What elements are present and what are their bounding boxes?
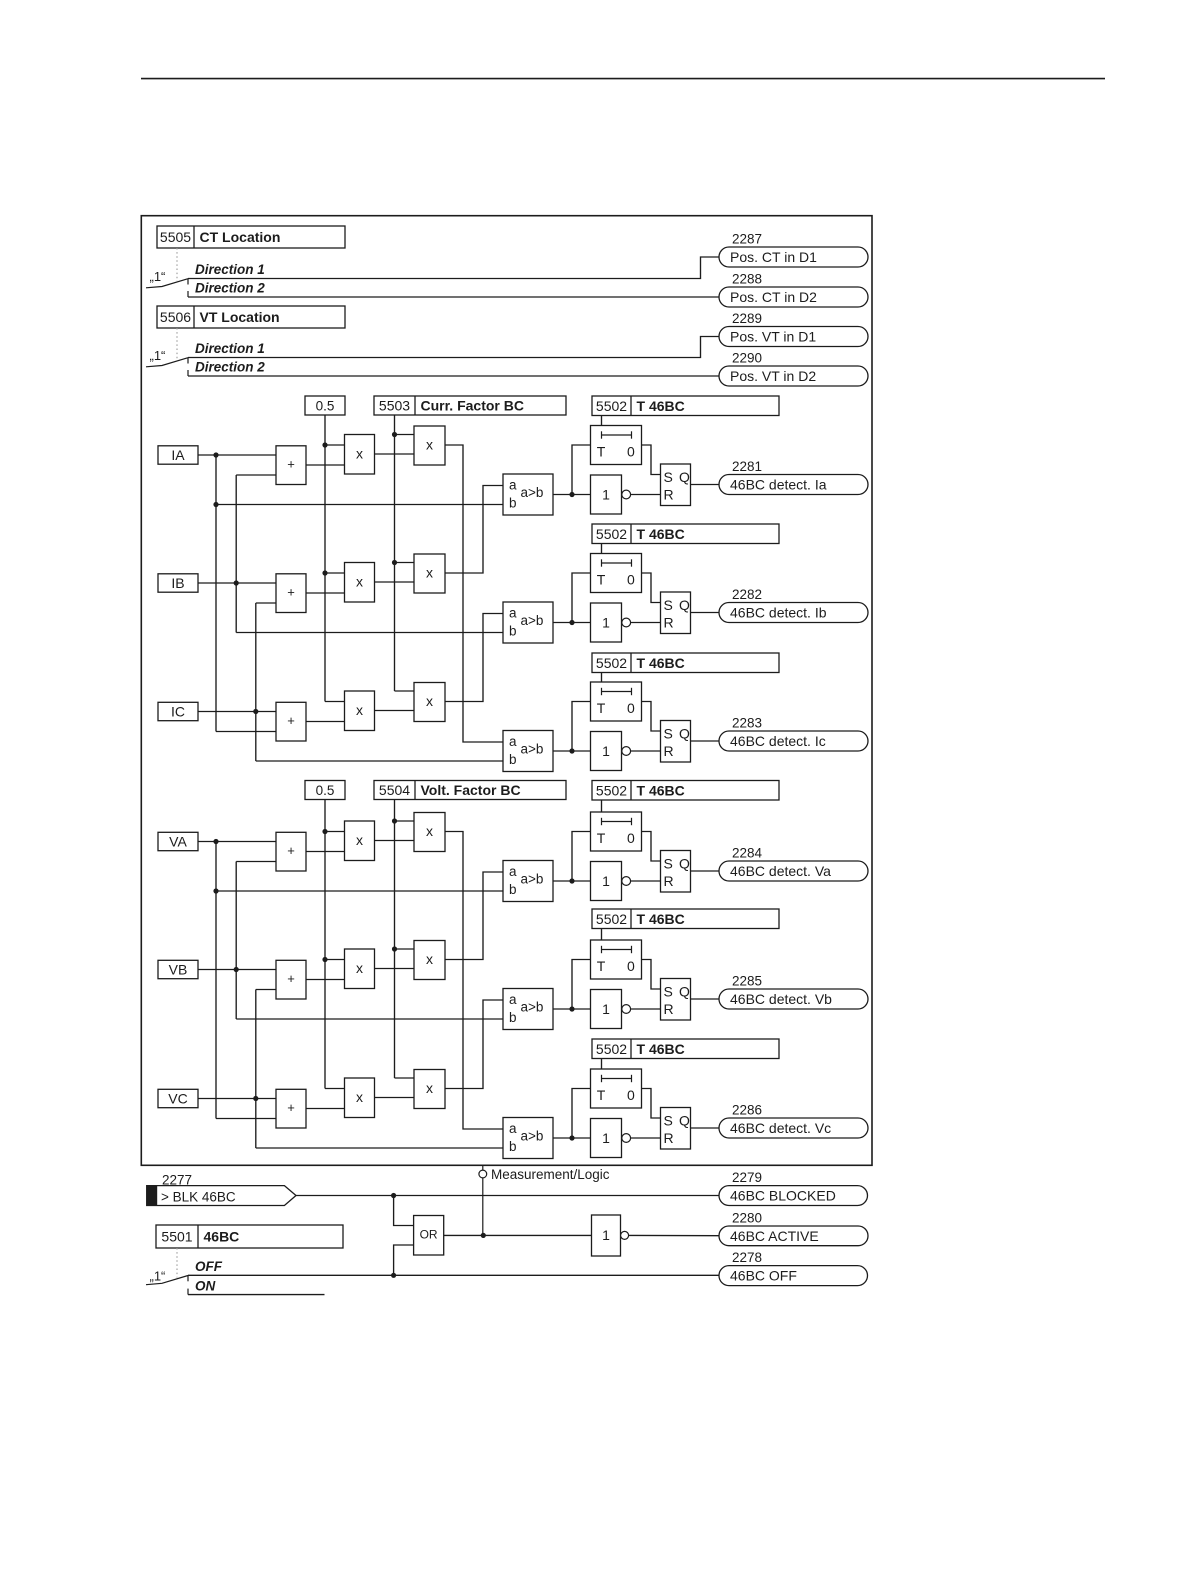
net OFF label — [195, 1259, 223, 1274]
svg-text:46BC detect. Vb: 46BC detect. Vb — [730, 991, 832, 1007]
wire multiplier x1 VC output — [375, 1097, 415, 1099]
wire summator VC output — [306, 1108, 345, 1110]
inverter gate 1 VA — [591, 862, 631, 901]
svg-text:46BC: 46BC — [204, 1229, 240, 1245]
output indication 2288 Pos. CT in D2 — [719, 272, 868, 308]
svg-text:2281: 2281 — [732, 459, 762, 474]
svg-text:2288: 2288 — [732, 272, 762, 287]
multiplier x2 IC — [414, 683, 445, 722]
SR flip-flop IA — [661, 464, 691, 506]
svg-text:T 46BC: T 46BC — [637, 782, 685, 798]
switch arm 5506 — [146, 358, 188, 367]
svg-text:46BC detect. Vc: 46BC detect. Vc — [730, 1120, 831, 1136]
svg-text:S: S — [664, 1113, 673, 1129]
parameter box 5501 46BC — [156, 1225, 343, 1248]
parameter box 5506 VT Location — [157, 306, 345, 328]
net Direction 1 (VT) label — [195, 341, 265, 356]
parameter box 5505 CT Location — [157, 226, 345, 248]
multiplier x1 VB — [345, 949, 375, 989]
measurement/logic boundary marker — [479, 1165, 610, 1235]
wire inverter IB to R input — [631, 622, 661, 624]
switch position label 1 for 5506 — [150, 348, 166, 363]
wire 0.5 constant feed (5503 group) — [322, 415, 344, 702]
svg-text:R: R — [664, 743, 674, 759]
svg-text:a>b: a>b — [521, 871, 544, 886]
svg-text:5505: 5505 — [160, 229, 191, 245]
svg-text:5502: 5502 — [596, 398, 627, 414]
timer T 46BC IA — [591, 426, 642, 465]
inverter gate 1 VB — [591, 990, 631, 1029]
wire inverter VB to R input — [631, 1008, 661, 1010]
svg-text:Direction 2: Direction 2 — [195, 360, 265, 375]
svg-text:a>b: a>b — [521, 741, 544, 756]
svg-text:T 46BC: T 46BC — [637, 398, 685, 414]
comparator a>b IB — [503, 602, 553, 643]
svg-text:2284: 2284 — [732, 846, 763, 861]
wire comparator VA output — [553, 832, 591, 884]
svg-text:IC: IC — [171, 703, 185, 719]
svg-text:46BC detect. Va: 46BC detect. Va — [730, 863, 831, 879]
svg-text:Q: Q — [679, 469, 690, 485]
wire inverter VA to R input — [631, 880, 661, 882]
summator (+) IC — [276, 702, 306, 741]
svg-text:a>b: a>b — [521, 613, 544, 628]
svg-text:„1“: „1“ — [150, 348, 166, 363]
svg-text:x: x — [426, 436, 433, 452]
input quantity box VC — [158, 1089, 198, 1107]
wire comparator IC output — [553, 702, 591, 754]
wire Direction 2 (CT) rail — [188, 291, 719, 297]
wire a-feed VB to comparator VA — [445, 872, 503, 960]
svg-text:R: R — [664, 873, 674, 889]
svg-text:1: 1 — [602, 1227, 610, 1243]
input quantity box IB — [158, 574, 198, 592]
svg-text:Pos. VT in D2: Pos. VT in D2 — [730, 368, 816, 384]
svg-text:0: 0 — [627, 1087, 635, 1103]
svg-text:Curr. Factor BC: Curr. Factor BC — [421, 398, 524, 414]
OR gate — [414, 1216, 444, 1256]
svg-text:+: + — [287, 843, 295, 858]
wire inverter VC to R input — [631, 1137, 661, 1139]
svg-text:b: b — [509, 496, 517, 511]
wire 5502 to timer IB — [601, 544, 603, 554]
output indication 2281 46BC detect. Ia — [719, 459, 868, 495]
wire phase-1 distribution (IA) — [213, 452, 503, 731]
wire multiplier x1 VB output — [375, 968, 415, 970]
wire comparator IB output — [553, 573, 591, 625]
svg-text:46BC BLOCKED: 46BC BLOCKED — [730, 1188, 836, 1204]
svg-text:1: 1 — [602, 486, 610, 502]
wire Q output IA — [691, 484, 720, 486]
wire multiplier x1 IB output — [375, 581, 415, 583]
svg-text:2286: 2286 — [732, 1103, 762, 1118]
svg-text:0: 0 — [627, 958, 635, 974]
input quantity box VB — [158, 960, 198, 978]
svg-text:5502: 5502 — [596, 526, 627, 542]
svg-text:5502: 5502 — [596, 782, 627, 798]
svg-text:x: x — [356, 702, 363, 718]
svg-text:OR: OR — [420, 1228, 438, 1242]
wire IB to summator — [198, 582, 276, 584]
output indication 2283 46BC detect. Ic — [719, 716, 868, 752]
output indication 2278 46BC OFF — [719, 1250, 868, 1286]
svg-text:T 46BC: T 46BC — [637, 655, 685, 671]
svg-text:+: + — [287, 456, 295, 471]
inverter gate 1 VC — [591, 1119, 631, 1158]
wire 5502 to timer VC — [601, 1059, 603, 1070]
svg-text:Measurement/Logic: Measurement/Logic — [491, 1167, 610, 1182]
timer T 46BC VB — [591, 940, 642, 979]
svg-text:1: 1 — [602, 1001, 610, 1017]
output indication 2287 Pos. CT in D1 — [719, 232, 868, 268]
svg-text:Q: Q — [679, 726, 690, 742]
wire a-feed IA to comparator IC — [445, 445, 503, 742]
svg-text:2283: 2283 — [732, 716, 762, 731]
wire summator VB output — [306, 979, 345, 981]
svg-text:Direction 2: Direction 2 — [195, 281, 265, 296]
svg-text:T: T — [597, 444, 606, 460]
wire phase-3 distribution (VC) — [253, 990, 503, 1149]
svg-text:x: x — [426, 564, 433, 580]
svg-text:S: S — [664, 984, 673, 1000]
multiplier x2 VA — [414, 813, 445, 852]
svg-text:x: x — [356, 960, 363, 976]
svg-text:IA: IA — [171, 447, 185, 463]
wire comparator IA output — [553, 445, 591, 497]
wire factor 5504 feed — [392, 800, 414, 1079]
svg-text:Q: Q — [679, 1113, 690, 1129]
wire OFF rail — [188, 1273, 719, 1282]
svg-text:VT Location: VT Location — [200, 309, 280, 325]
inverter gate 1 IB — [591, 603, 631, 642]
svg-text:T 46BC: T 46BC — [637, 911, 685, 927]
wire Direction 1 (CT) rail — [188, 257, 719, 285]
parameter box 5503 Curr. Factor BC — [374, 396, 566, 415]
wire inverter to active output — [629, 1234, 719, 1236]
multiplier x1 IC — [345, 691, 375, 731]
wire timer IA output to S input — [642, 445, 661, 475]
parameter box 5502 T 46BC — [592, 781, 779, 801]
multiplier x2 VB — [414, 941, 445, 980]
svg-text:T: T — [597, 830, 606, 846]
svg-text:Q: Q — [679, 597, 690, 613]
page header rule — [141, 78, 1105, 80]
svg-text:2287: 2287 — [732, 232, 762, 247]
svg-text:1: 1 — [602, 743, 610, 759]
binary input 2277 >BLK 46BC flag — [147, 1172, 296, 1205]
constant 0.5 box (5504 group) — [305, 781, 345, 800]
multiplier x1 VA — [345, 821, 375, 861]
svg-text:R: R — [664, 614, 674, 630]
comparator a>b VC — [503, 1118, 553, 1159]
multiplier x2 IA — [414, 426, 445, 465]
wire a-feed IC to comparator IB — [445, 614, 503, 702]
wire factor 5503 feed — [392, 415, 414, 691]
svg-text:+: + — [287, 713, 295, 728]
svg-text:Pos. VT in D1: Pos. VT in D1 — [730, 329, 816, 345]
svg-text:„1“: „1“ — [150, 1269, 166, 1284]
constant 0.5 box (5503 group) — [305, 396, 345, 415]
switch arm 5501 — [146, 1276, 188, 1285]
parameter box 5502 T 46BC — [592, 909, 779, 929]
wire OFF to OR gate input 2 — [394, 1245, 414, 1275]
svg-text:x: x — [426, 693, 433, 709]
svg-text:b: b — [509, 1139, 517, 1154]
wire Q output VA — [691, 870, 720, 872]
timer T 46BC IB — [591, 554, 642, 593]
svg-text:x: x — [426, 1080, 433, 1096]
wire phase-1 distribution (VA) — [213, 839, 503, 1119]
wire Q output VB — [691, 998, 720, 1000]
wire multiplier x1 IC output — [375, 710, 415, 712]
svg-text:46BC ACTIVE: 46BC ACTIVE — [730, 1228, 819, 1244]
svg-text:T 46BC: T 46BC — [637, 1041, 685, 1057]
svg-text:0: 0 — [627, 572, 635, 588]
parameter box 5502 T 46BC — [592, 653, 779, 673]
svg-text:a: a — [509, 606, 517, 621]
comparator a>b VB — [503, 989, 553, 1030]
wire 5502 to timer VA — [601, 800, 603, 812]
wire a-feed VA to comparator VC — [445, 832, 503, 1130]
svg-text:a: a — [509, 992, 517, 1007]
wire OR output to inverter — [444, 1233, 592, 1238]
svg-text:ON: ON — [195, 1278, 216, 1293]
svg-text:x: x — [426, 823, 433, 839]
svg-text:46BC detect. Ic: 46BC detect. Ic — [730, 733, 826, 749]
svg-text:a: a — [509, 1121, 517, 1136]
svg-text:CT Location: CT Location — [200, 229, 281, 245]
summator (+) VA — [276, 832, 306, 871]
svg-text:5501: 5501 — [161, 1229, 192, 1245]
SR flip-flop IC — [661, 721, 691, 763]
svg-text:+: + — [287, 584, 295, 599]
wire IC to summator — [198, 711, 276, 713]
svg-text:1: 1 — [602, 614, 610, 630]
wire Q output IB — [691, 612, 720, 614]
svg-text:T 46BC: T 46BC — [637, 526, 685, 542]
net ON label — [195, 1278, 216, 1293]
svg-text:b: b — [509, 882, 517, 897]
SR flip-flop VC — [661, 1108, 691, 1150]
multiplier x1 IA — [345, 435, 375, 475]
svg-text:Pos. CT in D1: Pos. CT in D1 — [730, 249, 817, 265]
svg-text:x: x — [356, 446, 363, 462]
switch position label 1 for 5501 — [150, 1269, 166, 1284]
svg-text:0.5: 0.5 — [316, 783, 335, 798]
SR flip-flop VA — [661, 851, 691, 893]
svg-text:a: a — [509, 734, 517, 749]
wire summator IC output — [306, 721, 345, 723]
svg-text:b: b — [509, 1010, 517, 1025]
svg-text:46BC detect. Ia: 46BC detect. Ia — [730, 477, 827, 493]
svg-text:S: S — [664, 726, 673, 742]
output indication 2285 46BC detect. Vb — [719, 974, 868, 1010]
wire comparator VC output — [553, 1089, 591, 1141]
wire BLK 46BC to blocked output — [296, 1193, 719, 1198]
setting dashed link 5505 — [176, 248, 178, 281]
output indication 2286 46BC detect. Vc — [719, 1103, 868, 1139]
svg-text:0: 0 — [627, 700, 635, 716]
svg-text:R: R — [664, 1001, 674, 1017]
svg-text:x: x — [356, 1089, 363, 1105]
wire phase-2 distribution (VB) — [234, 862, 503, 1020]
svg-text:2285: 2285 — [732, 974, 762, 989]
svg-text:T: T — [597, 700, 606, 716]
inverter gate 1 IC — [591, 732, 631, 771]
svg-text:46BC OFF: 46BC OFF — [730, 1268, 797, 1284]
SR flip-flop VB — [661, 979, 691, 1021]
wire 5502 to timer IA — [601, 416, 603, 426]
svg-text:Pos. CT in D2: Pos. CT in D2 — [730, 289, 817, 305]
svg-text:5506: 5506 — [160, 309, 191, 325]
wire inverter IA to R input — [631, 494, 661, 496]
wire summator IB output — [306, 592, 345, 594]
svg-text:+: + — [287, 971, 295, 986]
output indication 2282 46BC detect. Ib — [719, 587, 868, 623]
input quantity box IC — [158, 702, 198, 720]
svg-text:1: 1 — [602, 1130, 610, 1146]
input quantity box VA — [158, 832, 198, 850]
svg-text:2290: 2290 — [732, 351, 762, 366]
wire inverter IC to R input — [631, 750, 661, 752]
multiplier x2 VC — [414, 1070, 445, 1109]
comparator a>b VA — [503, 861, 553, 902]
svg-text:5502: 5502 — [596, 655, 627, 671]
svg-text:a>b: a>b — [521, 999, 544, 1014]
svg-text:a>b: a>b — [521, 485, 544, 500]
svg-text:5504: 5504 — [379, 782, 410, 798]
svg-text:2280: 2280 — [732, 1211, 762, 1226]
svg-text:a>b: a>b — [521, 1128, 544, 1143]
wire summator VA output — [306, 851, 345, 853]
summator (+) IB — [276, 574, 306, 613]
multiplier x2 IB — [414, 554, 445, 593]
wire multiplier x1 VA output — [375, 840, 415, 842]
svg-text:0.5: 0.5 — [316, 399, 335, 414]
svg-text:OFF: OFF — [195, 1259, 223, 1274]
wire VA to summator — [198, 841, 276, 843]
multiplier x1 VC — [345, 1078, 375, 1118]
svg-text:S: S — [664, 469, 673, 485]
svg-text:2282: 2282 — [732, 587, 762, 602]
wire timer IB output to S input — [642, 573, 661, 603]
setting dashed link 5506 — [176, 328, 178, 360]
svg-text:0: 0 — [627, 444, 635, 460]
wire multiplier x1 IA output — [375, 453, 415, 455]
svg-text:T: T — [597, 572, 606, 588]
wire comparator VB output — [553, 960, 591, 1012]
output indication 2284 46BC detect. Va — [719, 846, 868, 882]
svg-text:0: 0 — [627, 830, 635, 846]
inverter gate 1 (active) — [592, 1215, 629, 1256]
svg-text:S: S — [664, 597, 673, 613]
wire a-feed IB to comparator IA — [445, 486, 503, 574]
summator (+) VC — [276, 1089, 306, 1128]
multiplier x1 IB — [345, 563, 375, 603]
svg-text:R: R — [664, 486, 674, 502]
summator (+) IA — [276, 446, 306, 485]
svg-text:2289: 2289 — [732, 311, 762, 326]
timer T 46BC VC — [591, 1069, 642, 1108]
svg-text:x: x — [356, 574, 363, 590]
svg-text:T: T — [597, 1087, 606, 1103]
svg-text:VC: VC — [168, 1090, 187, 1106]
net Direction 2 (VT) label — [195, 360, 265, 375]
parameter box 5502 T 46BC — [592, 1039, 779, 1059]
svg-text:IB: IB — [171, 575, 184, 591]
parameter box 5504 Volt. Factor BC — [374, 781, 566, 800]
comparator a>b IA — [503, 474, 553, 515]
wire ON stub — [188, 1289, 325, 1295]
wire timer VB output to S input — [642, 960, 661, 990]
svg-text:Direction 1: Direction 1 — [195, 262, 265, 277]
svg-text:Q: Q — [679, 856, 690, 872]
wire VC to summator — [198, 1098, 276, 1100]
parameter box 5502 T 46BC — [592, 524, 779, 544]
wire 0.5 constant feed (5504 group) — [322, 800, 344, 1089]
output indication 2279 46BC BLOCKED — [719, 1170, 868, 1205]
input quantity box IA — [158, 446, 198, 464]
wire Direction 2 (VT) rail — [188, 370, 719, 376]
wire 5502 to timer IC — [601, 673, 603, 683]
svg-text:Direction 1: Direction 1 — [195, 341, 265, 356]
svg-text:5502: 5502 — [596, 911, 627, 927]
svg-text:a: a — [509, 478, 517, 493]
svg-text:a: a — [509, 864, 517, 879]
svg-text:x: x — [356, 832, 363, 848]
svg-text:2279: 2279 — [732, 1170, 762, 1185]
net Direction 1 (CT) label — [195, 262, 265, 277]
timer T 46BC IC — [591, 682, 642, 721]
svg-text:> BLK 46BC: > BLK 46BC — [161, 1189, 236, 1204]
wire VB to summator — [198, 969, 276, 971]
wire IA to summator — [198, 454, 276, 456]
inverter gate 1 IA — [591, 475, 631, 514]
setting dashed link 5501 — [176, 1248, 178, 1278]
svg-text:T: T — [597, 958, 606, 974]
wire a-feed VC to comparator VB — [445, 1000, 503, 1089]
wire timer IC output to S input — [642, 702, 661, 732]
wire Direction 1 (VT) rail — [188, 337, 719, 364]
wire BLK to OR gate input 1 — [394, 1196, 414, 1226]
svg-text:1: 1 — [602, 873, 610, 889]
svg-text:x: x — [426, 951, 433, 967]
output indication 2290 Pos. VT in D2 — [719, 351, 868, 387]
svg-text:VB: VB — [169, 961, 188, 977]
wire summator IA output — [306, 464, 345, 466]
svg-text:Volt. Factor BC: Volt. Factor BC — [421, 782, 521, 798]
wire timer VA output to S input — [642, 832, 661, 862]
parameter box 5502 T 46BC — [592, 396, 779, 416]
svg-text:S: S — [664, 856, 673, 872]
svg-text:Q: Q — [679, 984, 690, 1000]
output indication 2289 Pos. VT in D1 — [719, 311, 868, 347]
svg-text:VA: VA — [169, 833, 187, 849]
comparator a>b IC — [503, 731, 553, 772]
svg-text:b: b — [509, 752, 517, 767]
svg-text:2278: 2278 — [732, 1250, 762, 1265]
wire phase-3 distribution (IC) — [253, 603, 503, 761]
wire 5502 to timer VB — [601, 929, 603, 941]
summator (+) VB — [276, 960, 306, 999]
svg-text:46BC detect. Ib: 46BC detect. Ib — [730, 605, 827, 621]
wire Q output IC — [691, 740, 720, 742]
wire phase-2 distribution (IB) — [234, 475, 503, 633]
diagram outer frame — [141, 216, 872, 1166]
wire timer VC output to S input — [642, 1089, 661, 1119]
wire Q output VC — [691, 1127, 720, 1129]
svg-text:b: b — [509, 624, 517, 639]
